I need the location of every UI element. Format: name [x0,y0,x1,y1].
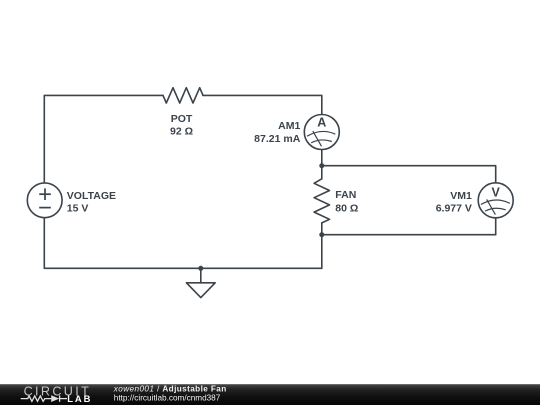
wire top from voltage source corner to POT [44,95,163,182]
svg-text:http://circuitlab.com/cnmd387: http://circuitlab.com/cnmd387 [114,394,221,403]
wire bottom rail [44,218,322,268]
svg-text:92 Ω: 92 Ω [170,126,193,138]
wire from POT to ammeter top [203,95,322,114]
ammeter needle [313,131,322,146]
voltmeter VM1 circle [478,183,513,218]
voltage source plus sign [39,188,51,207]
voltmeter needle [487,199,496,214]
ground stem [200,268,202,283]
resistor POT (R zigzag horizontal) [163,88,203,103]
footer bar [0,384,540,405]
resistor FAN (R zigzag vertical) [314,179,329,223]
svg-text:VOLTAGE: VOLTAGE [67,190,116,202]
svg-text:87.21 mA: 87.21 mA [254,133,301,145]
ammeter face arcs and needle [307,131,335,146]
svg-text:AM1: AM1 [278,120,300,132]
ammeter AM1 circle [304,115,339,150]
voltmeter face arcs and needle [481,199,510,214]
ammeter scale inner arc [311,140,332,143]
svg-text:15 V: 15 V [67,203,89,215]
ammeter scale outer arc [307,131,335,136]
svg-text:FAN: FAN [335,189,356,201]
svg-text:LAB: LAB [67,393,92,404]
voltmeter scale inner arc [485,208,506,211]
ground symbol [186,283,215,298]
svg-text:POT: POT [171,113,193,125]
svg-text:V: V [492,185,501,199]
CircuitLab logo resistor-diode line [21,395,67,401]
node A junction [319,163,324,168]
wire FAN bottom to node B to bottom rail [321,223,323,268]
svg-text:6.977 V: 6.977 V [436,202,472,214]
voltage source V1 circle [27,183,62,218]
svg-text:xowen001 / Adjustable Fan: xowen001 / Adjustable Fan [113,384,227,393]
wire voltmeter bottom to node B [322,218,496,235]
svg-text:A: A [317,115,326,129]
voltmeter scale outer arc [481,200,510,204]
node junction ground [198,266,203,271]
wire ammeter bottom to node A [321,149,323,165]
svg-text:80 Ω: 80 Ω [335,202,358,214]
node B junction [319,232,324,237]
svg-text:VM1: VM1 [450,190,472,202]
CircuitLab logo diode triangle [51,395,59,402]
wire node A to FAN top [321,166,323,179]
wire node A to voltmeter top [322,166,496,183]
voltage source minus sign [39,207,51,209]
